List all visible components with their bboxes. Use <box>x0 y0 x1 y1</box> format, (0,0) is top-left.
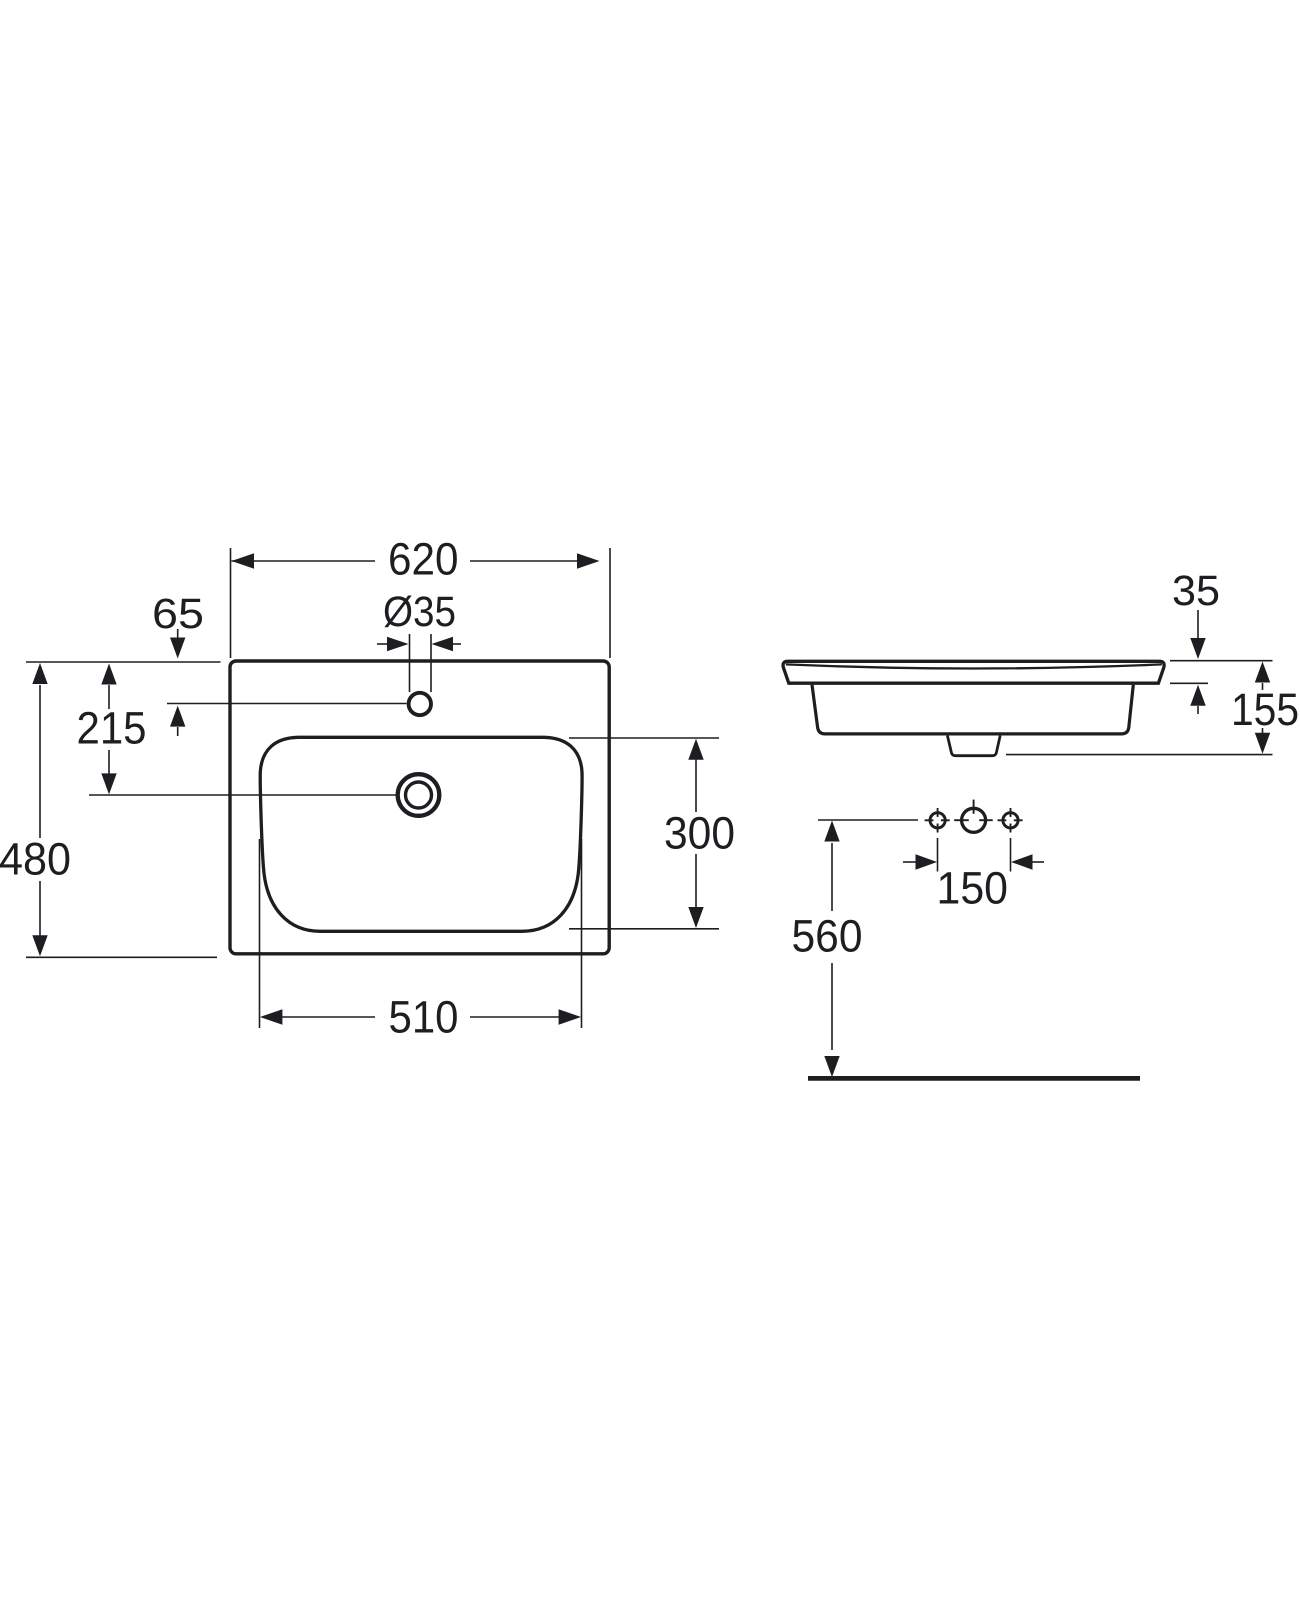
150 ext lines <box>937 838 939 872</box>
bottom ext line <box>26 956 217 958</box>
215 dim <box>108 685 110 709</box>
holes view ext line <box>818 819 918 821</box>
svg-text:35: 35 <box>1172 567 1220 615</box>
300 <box>688 739 703 760</box>
155 <box>1255 662 1270 683</box>
faucet hole <box>409 693 431 715</box>
basin outline <box>260 737 582 931</box>
drain inner <box>406 782 432 808</box>
620 dim line <box>232 560 376 562</box>
150 dim stems <box>903 861 916 863</box>
215 <box>101 664 116 685</box>
drain level line <box>89 794 396 796</box>
150 <box>916 854 938 869</box>
svg-text:480: 480 <box>0 834 71 885</box>
560 <box>824 821 839 842</box>
svg-text:560: 560 <box>792 911 863 962</box>
510 <box>260 1009 283 1024</box>
rim bevel line <box>786 664 1162 668</box>
620 ext lines <box>230 548 232 658</box>
top ext line <box>26 661 221 663</box>
65 arrows stems <box>177 629 179 639</box>
svg-text:155: 155 <box>1231 684 1299 735</box>
side ext line bottom <box>1006 754 1273 756</box>
svg-text:Ø35: Ø35 <box>383 588 456 636</box>
svg-text:620: 620 <box>388 534 459 585</box>
300 ext lines <box>569 737 719 739</box>
svg-text:510: 510 <box>389 992 459 1043</box>
155 dim <box>1262 683 1264 690</box>
65 <box>170 638 185 659</box>
480 <box>32 663 47 684</box>
outer rect <box>230 661 609 954</box>
drain stub <box>947 736 1000 756</box>
510 dim line <box>281 1016 375 1018</box>
holes <box>930 813 945 828</box>
300 dim <box>695 759 697 812</box>
side ext line top <box>1170 660 1273 662</box>
side view: 35 arrow stem <box>1197 610 1199 638</box>
O35 <box>387 637 409 651</box>
svg-text:65: 65 <box>152 590 204 638</box>
bowl <box>812 685 1133 734</box>
620 <box>232 553 255 568</box>
faucet level line <box>167 703 407 705</box>
480 dim <box>39 685 41 838</box>
svg-text:300: 300 <box>664 808 735 859</box>
560 dim <box>831 843 833 911</box>
side ext line rim bottom <box>1170 682 1208 684</box>
rim <box>783 661 1164 683</box>
O35 arrow stems <box>377 643 388 645</box>
510 ext lines <box>259 839 261 1028</box>
O35 vertical lines <box>409 634 411 692</box>
crosshairs (broken center marks) <box>925 800 1023 833</box>
drain outer <box>398 774 440 816</box>
svg-text:215: 215 <box>77 703 147 754</box>
svg-text:150: 150 <box>937 863 1009 914</box>
35 side <box>1190 638 1205 659</box>
floor line <box>808 1076 1140 1081</box>
